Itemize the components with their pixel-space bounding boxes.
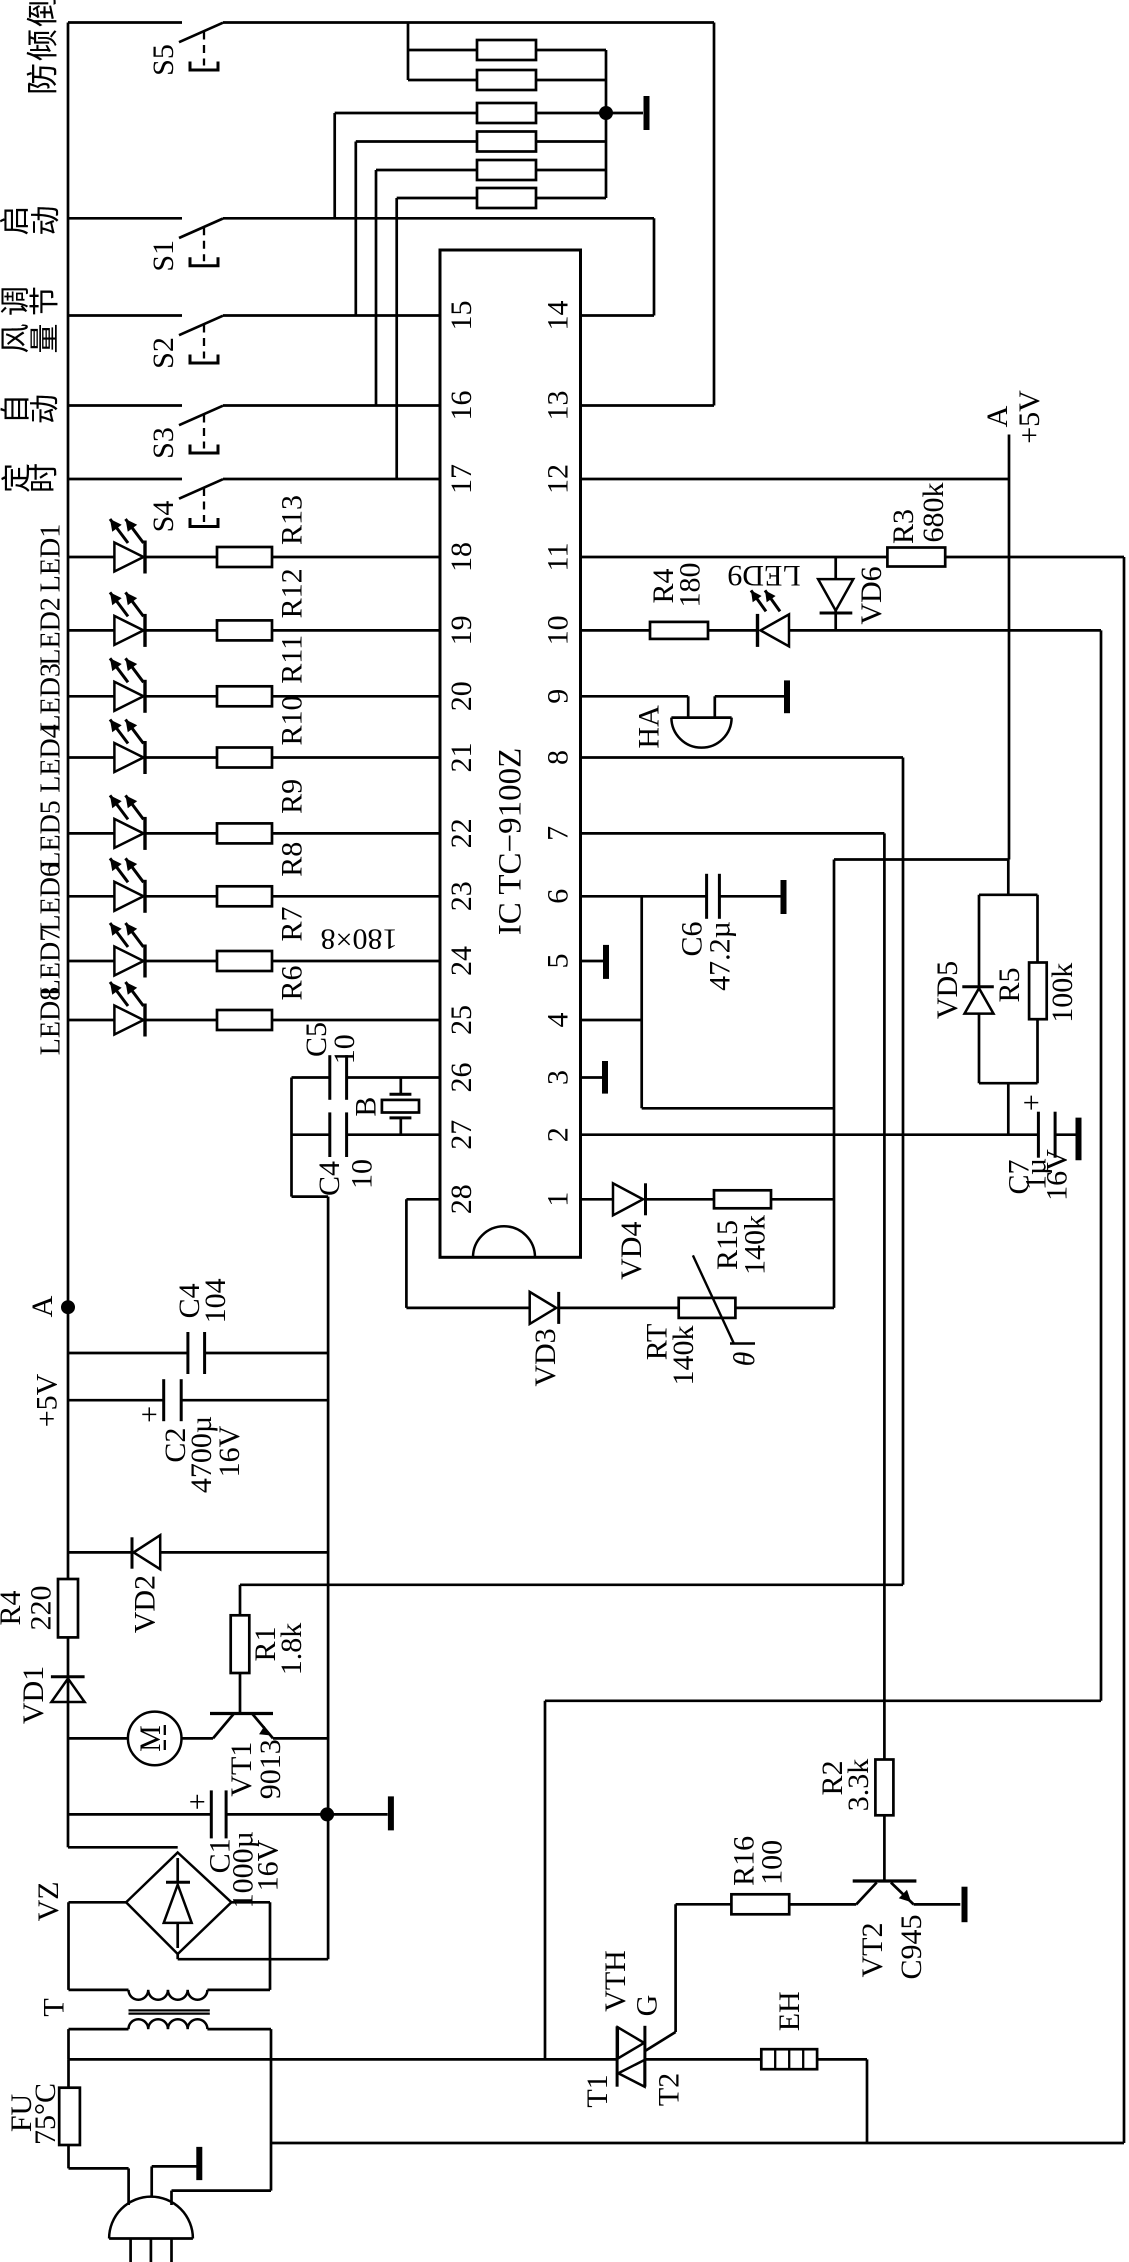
svg-text:LED2: LED2 — [36, 597, 67, 665]
svg-text:R4: R4 — [0, 1590, 27, 1625]
svg-text:M: M — [134, 1725, 167, 1752]
diode VD5 — [962, 987, 994, 1014]
svg-text:4: 4 — [542, 1013, 575, 1028]
junction dot C1/ground — [320, 1807, 334, 1821]
svg-text:28: 28 — [445, 1184, 478, 1214]
IC U1 TC-9100Z body — [440, 250, 581, 1257]
capacitor C4 10 on pin 27 — [292, 1112, 441, 1157]
svg-text:18: 18 — [445, 542, 478, 572]
svg-text:倒: 倒 — [24, 0, 60, 27]
svg-text:HA: HA — [633, 705, 666, 749]
svg-text:A: A — [981, 405, 1014, 427]
resistor R6 — [217, 1010, 440, 1030]
resistor bank 6x (switch pull-downs) — [335, 40, 606, 208]
svg-text:11: 11 — [542, 543, 575, 572]
ground (buzzer) — [715, 680, 787, 713]
label 启动 (start) for S1 — [0, 206, 63, 236]
wire pin 13 to S5 line (right loop) — [581, 23, 715, 406]
label VTH G T1 T2 — [581, 1950, 686, 2107]
wire AC live line — [69, 2058, 618, 2061]
resistor R15 140k — [714, 1190, 834, 1208]
wire pin 11 line — [581, 556, 1125, 559]
LED LED9 — [751, 590, 789, 647]
wire pin 10 drop to bottom-left hook — [1100, 630, 1103, 1700]
svg-text:R12: R12 — [276, 568, 309, 618]
label RT 140k θ — [641, 1324, 762, 1386]
LED LED1 — [68, 519, 217, 574]
svg-text:VTH: VTH — [599, 1950, 632, 2012]
svg-text:时: 时 — [28, 463, 61, 493]
LED LED8 — [68, 982, 217, 1037]
svg-text:5: 5 — [542, 954, 575, 969]
svg-text:IC TC−9100Z: IC TC−9100Z — [493, 748, 529, 936]
svg-text:100: 100 — [755, 1840, 788, 1885]
transistor VT2 C945 — [853, 1815, 961, 1904]
svg-text:R11: R11 — [276, 635, 309, 684]
svg-text:G: G — [631, 1995, 664, 2017]
LED LED7 — [68, 923, 217, 978]
label FU 75°C — [5, 2083, 62, 2145]
svg-text:104: 104 — [199, 1278, 232, 1323]
capacitor C5 10 on pin 26 — [292, 1055, 441, 1100]
svg-text:22: 22 — [445, 818, 478, 848]
resistor R4 220 — [58, 1579, 78, 1637]
svg-text:R10: R10 — [276, 695, 309, 745]
wire S5 switch to top-right corner — [223, 21, 714, 24]
svg-text:13: 13 — [542, 391, 575, 421]
wire plug neutral lead — [172, 2191, 272, 2205]
LED LED5 — [68, 795, 217, 850]
svg-text:LED9: LED9 — [727, 559, 800, 592]
wire secondary left lead — [67, 2029, 70, 2059]
svg-text:防: 防 — [24, 63, 60, 95]
svg-text:LED5: LED5 — [36, 800, 67, 868]
svg-text:S4: S4 — [147, 501, 180, 533]
svg-text:LED7: LED7 — [36, 928, 67, 996]
resistor R5 100k — [1029, 963, 1047, 1020]
wire pin 14 to S1 line — [581, 218, 655, 315]
svg-text:16V: 16V — [1041, 1149, 1074, 1201]
wire pin 10 line — [581, 629, 1102, 632]
heater EH — [761, 2049, 817, 2069]
svg-text:VD1: VD1 — [17, 1666, 50, 1724]
junction dot resistor bank common — [599, 106, 613, 120]
resistor R12 — [217, 620, 440, 640]
wire pin-8 drive line to R1 — [240, 1583, 903, 1586]
wire primary right lead to AC return — [270, 2029, 273, 2191]
wire crystal caps to ground riser — [292, 1078, 329, 1960]
wire pin 12 to +5V rail — [581, 478, 1010, 481]
IC notch — [473, 1226, 535, 1257]
svg-text:100k: 100k — [1046, 963, 1079, 1023]
transformer T — [69, 1990, 272, 2029]
transistor VT1 9013 — [182, 1714, 329, 1739]
svg-text:VT2: VT2 — [856, 1923, 889, 1978]
label 自动 (auto) for S3 — [0, 394, 62, 424]
wire pin 6 / pin 4 to VDD node — [642, 896, 834, 1108]
wire resistor-bank risers to switch lines — [335, 23, 408, 480]
crystal B — [382, 1078, 419, 1135]
wire pin 7 to R2 drop — [581, 833, 885, 1759]
svg-text:140k: 140k — [739, 1215, 772, 1275]
resistor R10 — [217, 748, 440, 768]
wire S1 switch to pin-14 riser — [223, 217, 654, 220]
svg-text:6: 6 — [542, 889, 575, 904]
capacitor C7 1µ 16V — [1015, 1094, 1075, 1157]
svg-text:140k: 140k — [667, 1326, 700, 1386]
svg-text:T1: T1 — [581, 2074, 614, 2107]
wire +5V rail right — [834, 435, 1009, 1308]
switch S5 — [68, 23, 223, 76]
svg-text:R7: R7 — [276, 906, 309, 941]
label VT2 C945 — [856, 1914, 928, 1979]
wire pin 2 line — [581, 1133, 1039, 1136]
svg-text:3: 3 — [542, 1070, 575, 1085]
svg-text:+5V: +5V — [31, 1373, 64, 1427]
svg-text:47.2µ: 47.2µ — [704, 921, 737, 991]
diode VD1 — [51, 1677, 85, 1702]
svg-text:15: 15 — [445, 301, 478, 331]
svg-text:VD4: VD4 — [615, 1222, 648, 1280]
svg-text:S1: S1 — [147, 240, 180, 272]
svg-text:25: 25 — [445, 1005, 478, 1035]
svg-text:+5V: +5V — [1013, 390, 1046, 444]
label C1 1000µ 16V — [204, 1831, 285, 1908]
switch S3 — [68, 406, 223, 459]
svg-text:+: + — [181, 1793, 214, 1810]
svg-text:VD5: VD5 — [931, 961, 964, 1019]
switch S1 — [68, 218, 223, 271]
svg-text:θ: θ — [728, 1351, 761, 1366]
resistor R8 — [217, 886, 440, 906]
capacitor C4 104 — [68, 1332, 328, 1374]
svg-text:动: 动 — [29, 394, 62, 424]
thermistor RT 140k — [679, 1255, 834, 1343]
capacitor C1 1000µ 16V — [68, 1790, 327, 1838]
svg-text:16V: 16V — [251, 1839, 284, 1891]
switch S4 — [68, 479, 223, 532]
wire resistor-bank common vertical — [605, 50, 608, 198]
label R3 680k — [887, 483, 950, 545]
resistor R16 100 — [676, 1894, 857, 1914]
label R1 1.8k — [249, 1623, 308, 1676]
resistor R2 3.3k — [875, 1760, 893, 1816]
label 防倾倒 (anti-tip) for S5 — [24, 0, 60, 95]
wire heater to AC return — [817, 2059, 867, 2143]
triac VTH — [617, 1904, 676, 2086]
svg-text:24: 24 — [445, 946, 478, 976]
svg-text:2: 2 — [542, 1127, 575, 1142]
wire AC return bottom line — [271, 2142, 1124, 2145]
svg-text:R6: R6 — [276, 965, 309, 1000]
svg-text:20: 20 — [445, 681, 478, 711]
label R15 140k — [711, 1215, 772, 1275]
LED LED4 — [68, 720, 217, 775]
svg-text:16: 16 — [445, 391, 478, 421]
label C4 104 — [173, 1278, 232, 1323]
svg-text:19: 19 — [445, 615, 478, 645]
wire pin 28 to VD3/RT line — [406, 1199, 529, 1308]
label node A (+5V right) — [981, 390, 1046, 444]
svg-text:T: T — [38, 1998, 71, 2016]
svg-text:180: 180 — [674, 563, 707, 608]
label VT1 9013 — [225, 1739, 287, 1799]
svg-text:启: 启 — [0, 206, 33, 236]
ground (C6) — [781, 880, 787, 914]
label C2 4700µ 16V — [159, 1416, 246, 1493]
svg-text:VD2: VD2 — [128, 1575, 161, 1633]
ground (resistor bank) — [606, 96, 647, 130]
label C6 47.2µ — [676, 921, 737, 991]
label R4 180 — [647, 563, 707, 608]
wire bridge left vertex to secondary — [69, 1902, 127, 1990]
svg-text:1.8k: 1.8k — [275, 1623, 308, 1676]
svg-text:3.3k: 3.3k — [842, 1759, 875, 1812]
label R2 3.3k — [816, 1759, 875, 1812]
svg-text:1: 1 — [542, 1192, 575, 1207]
svg-text:节: 节 — [29, 286, 62, 316]
resistor R1 1.8k — [231, 1585, 250, 1714]
wire S3 switch to IC pin 16 — [223, 404, 440, 407]
wire S2 switch to IC pin 15 — [223, 314, 440, 317]
svg-text:LED4: LED4 — [36, 724, 67, 792]
wire triac T2 to heater — [645, 2058, 761, 2061]
label R4 220 — [0, 1586, 58, 1631]
svg-text:26: 26 — [445, 1063, 478, 1093]
svg-text:12: 12 — [542, 464, 575, 494]
resistor R9 — [217, 823, 440, 843]
svg-text:680k: 680k — [917, 483, 950, 543]
diode VD4 on pin 1 — [581, 1183, 715, 1215]
svg-text:LED8: LED8 — [36, 987, 67, 1055]
wire S4 switch to IC pin 17 — [223, 478, 440, 481]
svg-text:VZ: VZ — [32, 1881, 65, 1921]
IC pin numbers right (1-14) — [542, 301, 575, 1207]
switch S2 — [68, 316, 223, 369]
label C5 10 — [300, 1022, 361, 1064]
svg-text:VD3: VD3 — [529, 1328, 562, 1386]
ground (VT2 emitter) — [962, 1887, 968, 1923]
svg-text:S3: S3 — [147, 427, 180, 459]
capacitor C6 on pin 6 — [581, 874, 782, 919]
ground (C7) — [1076, 1118, 1082, 1161]
label R5 100k — [993, 963, 1079, 1023]
svg-text:A: A — [26, 1295, 59, 1317]
svg-text:+: + — [1015, 1094, 1048, 1111]
resistor R7 — [217, 951, 440, 971]
IC pin numbers left (15-28) — [445, 301, 478, 1215]
resistor R3 — [887, 548, 945, 567]
svg-text:10: 10 — [346, 1159, 379, 1189]
LED LED6 — [68, 858, 217, 913]
svg-text:R13: R13 — [276, 495, 309, 545]
diode VD2 — [68, 1535, 328, 1569]
diode VD3 — [530, 1292, 679, 1324]
svg-text:10: 10 — [328, 1034, 361, 1064]
svg-text:LED3: LED3 — [36, 663, 67, 731]
buzzer HA on pin 9 — [581, 696, 732, 747]
capacitor C2 4700µ 16V — [68, 1379, 328, 1423]
label R16 100 — [728, 1836, 789, 1886]
mains plug — [109, 2197, 193, 2262]
svg-text:C945: C945 — [895, 1914, 928, 1979]
wire bridge right vertex to secondary — [231, 1902, 270, 1990]
resistor R11 — [217, 686, 440, 706]
node A junction dot — [61, 1300, 75, 1314]
svg-text:R9: R9 — [276, 779, 309, 814]
svg-text:风: 风 — [0, 324, 33, 354]
LED LED3 — [68, 658, 217, 713]
svg-text:220: 220 — [25, 1586, 58, 1631]
wire pin 8 to R1 drive line — [581, 758, 904, 1585]
ground (plug earth) — [152, 2147, 200, 2197]
svg-text:量: 量 — [29, 324, 62, 354]
ground (pin 3) — [581, 1061, 606, 1094]
svg-text:+: + — [133, 1406, 166, 1423]
label 风量调节 (fan amount adjust) for S2 — [0, 286, 62, 354]
label C4 10 — [313, 1159, 379, 1196]
svg-text:调: 调 — [0, 286, 33, 316]
svg-text:9013: 9013 — [254, 1739, 287, 1799]
svg-text:R8: R8 — [276, 842, 309, 877]
resistor R4 180 — [650, 622, 708, 639]
svg-text:EH: EH — [773, 1991, 806, 2031]
svg-text:T2: T2 — [653, 2073, 686, 2106]
svg-text:LED1: LED1 — [36, 524, 67, 592]
svg-text:21: 21 — [445, 743, 478, 773]
bridge rectifier VZ — [68, 1846, 231, 1955]
svg-text:180×8: 180×8 — [321, 922, 398, 955]
resistor R13 — [217, 547, 440, 567]
svg-text:S2: S2 — [147, 337, 180, 369]
svg-text:17: 17 — [445, 464, 478, 494]
svg-text:R3: R3 — [887, 509, 920, 544]
diode VD6 — [818, 557, 853, 630]
motor M — [68, 1712, 182, 1766]
wire left +5V rail (node A rail) — [67, 23, 70, 1846]
svg-text:10: 10 — [542, 615, 575, 645]
ground (C1 node) — [327, 1796, 391, 1830]
svg-text:27: 27 — [445, 1120, 478, 1150]
svg-text:C4: C4 — [313, 1161, 346, 1196]
svg-text:LED6: LED6 — [36, 863, 67, 931]
svg-text:16V: 16V — [213, 1425, 246, 1477]
svg-text:9: 9 — [542, 689, 575, 704]
wire pin 11 to AC return (right edge drop) — [1123, 557, 1126, 2143]
diode VD5 / resistor R5 parallel pair — [979, 860, 1038, 1135]
svg-text:75°C: 75°C — [29, 2083, 62, 2145]
svg-text:8: 8 — [542, 750, 575, 765]
label 定时 (timer) for S4 — [1, 463, 61, 493]
svg-text:23: 23 — [445, 881, 478, 911]
svg-text:R5: R5 — [993, 967, 1026, 1002]
svg-text:14: 14 — [542, 301, 575, 331]
svg-text:B: B — [349, 1097, 382, 1117]
wire pin 4 stub — [581, 1019, 642, 1022]
svg-text:VD6: VD6 — [855, 566, 888, 624]
svg-text:S5: S5 — [147, 44, 180, 76]
svg-text:7: 7 — [542, 826, 575, 841]
label C7 1µ 16V — [1003, 1149, 1074, 1201]
svg-text:倾: 倾 — [24, 29, 60, 61]
fuse FU 75°C — [59, 2059, 128, 2205]
LED LED2 — [68, 592, 217, 647]
wire bridge bottom to ground riser — [178, 1954, 328, 1959]
ground (pin 5) — [581, 945, 607, 979]
svg-text:动: 动 — [30, 206, 63, 236]
wire sense drop to AC line — [545, 1701, 1101, 2060]
